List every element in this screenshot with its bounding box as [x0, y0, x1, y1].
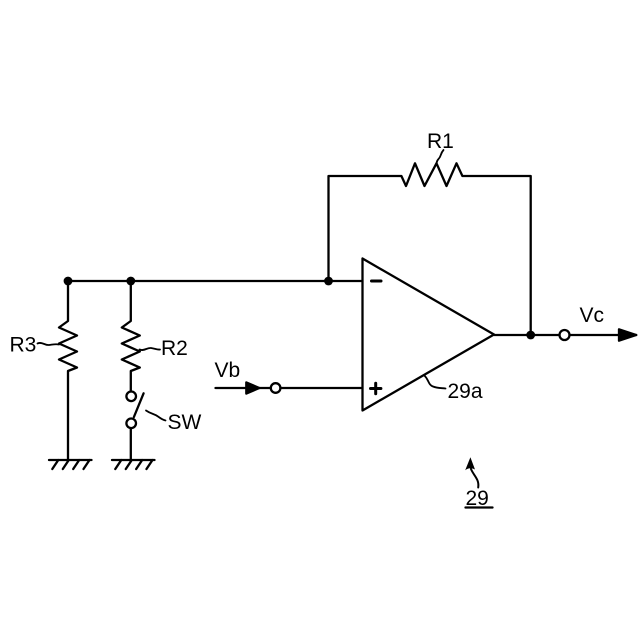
svg-text:R1: R1 [427, 130, 454, 153]
svg-text:SW: SW [168, 411, 202, 434]
svg-text:R3: R3 [10, 334, 37, 357]
svg-text:R2: R2 [161, 337, 188, 360]
svg-text:Vc: Vc [580, 304, 605, 327]
svg-text:Vb: Vb [215, 359, 241, 382]
svg-text:29a: 29a [448, 380, 483, 403]
